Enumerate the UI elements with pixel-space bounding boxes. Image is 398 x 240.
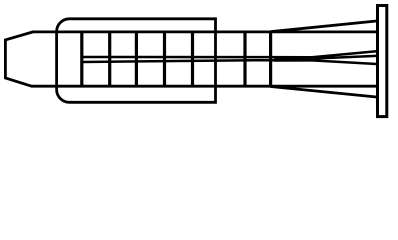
expansion top edge: [271, 21, 377, 32]
inner bottom line (core bottom, runs from tip shoulder to collar): [31, 85, 377, 88]
rib vertical 6: [243, 31, 246, 88]
rib vertical 3: [135, 31, 138, 88]
anchor body outline (rounded left end, square right end): [57, 19, 216, 103]
rib vertical 4: [163, 31, 166, 88]
slit middle line: [308, 56, 377, 59]
slit upper line: [82, 51, 377, 57]
slit merge wedge: [274, 57, 318, 62]
inner top line (core top, runs from tip shoulder to collar): [32, 30, 377, 33]
rib vertical 7 (start of expansion zone): [269, 31, 272, 88]
tip cone (left end): [5, 32, 33, 86]
collar flange: [378, 6, 387, 117]
slit lower line: [82, 60, 377, 64]
rib vertical 1: [80, 31, 83, 88]
rib vertical 2: [108, 31, 111, 88]
rib vertical 5: [191, 31, 194, 88]
expansion bottom edge: [271, 87, 377, 98]
